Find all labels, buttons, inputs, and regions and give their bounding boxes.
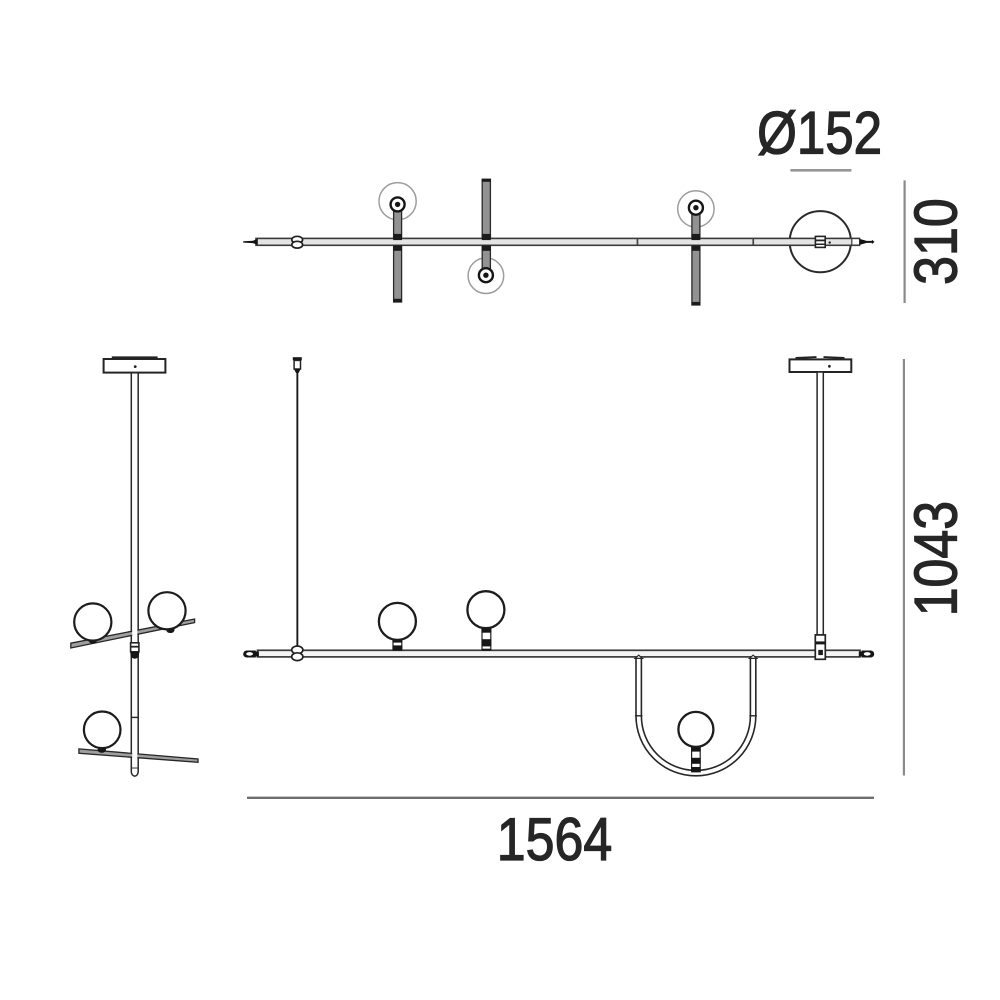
upper-left sphere [74, 603, 111, 640]
sphere 1 [379, 603, 416, 640]
suspension rod (front view) [817, 372, 823, 635]
element 1: rod [394, 206, 402, 303]
U-tube outer wall [636, 657, 756, 776]
dim line 1564 [247, 797, 874, 799]
sphere 1 stem [393, 639, 402, 650]
lower sphere [84, 712, 121, 749]
svg-text:1564: 1564 [497, 805, 612, 872]
element 1: sphere circle (light) [379, 183, 416, 220]
upper-right sphere stub [166, 627, 174, 633]
rod rounded tip [131, 769, 138, 777]
element 3: rod [692, 211, 700, 306]
U-tube joint ticks [635, 715, 643, 717]
right eyelet [859, 651, 874, 658]
rod over arms [132, 628, 137, 643]
upper-right sphere [148, 592, 185, 629]
lower arm (side view) [79, 749, 198, 762]
element 1: pivot ring [391, 197, 405, 211]
dim line 310 [903, 180, 905, 303]
bar (front view) [258, 650, 861, 657]
element 3: rod clamp bands [692, 234, 701, 240]
element 2: rod clamp bands [482, 234, 491, 240]
dim line 1043 [903, 359, 905, 776]
bar (top view) [256, 238, 860, 245]
cable collar on bar [292, 646, 303, 654]
U sphere stem [692, 746, 701, 771]
canopy disc (top view) [790, 211, 851, 272]
mid connector (side view) [131, 643, 139, 652]
upper-left sphere stub [89, 637, 97, 643]
U-tube inner wall [641, 657, 750, 771]
svg-text:1043: 1043 [902, 501, 969, 616]
joint tick 1 on bar [637, 239, 639, 246]
element 3: pivot ring [689, 201, 703, 215]
canopy (front view) [790, 359, 852, 372]
element 2: rod [482, 179, 490, 269]
dim leader under Ø152 [790, 169, 851, 172]
element 2: sphere circle (light) [468, 258, 504, 294]
element 3: sphere circle (light) [678, 191, 714, 227]
upper arm (side view) [71, 619, 195, 648]
cable collar (top view) [292, 236, 303, 243]
left eyelet [243, 651, 259, 658]
rod connector (front view) [815, 635, 825, 659]
left suspension cable [296, 373, 298, 650]
bar end gap segment [852, 239, 859, 244]
stem rod (side view) [131, 373, 138, 769]
lower sphere stub [98, 746, 106, 752]
left cable top fitting [293, 357, 302, 360]
sphere 2 stem [482, 628, 491, 650]
joint tick 2 on bar [752, 239, 754, 246]
sphere 2 [467, 591, 504, 628]
element 1: rod clamp bands [393, 234, 402, 240]
left pin tip [243, 239, 258, 245]
rod joint tick [131, 716, 138, 718]
right pin tip [859, 239, 874, 245]
U-tube top peaks [635, 655, 642, 658]
svg-text:Ø152: Ø152 [757, 100, 882, 167]
canopy (side view) [104, 359, 166, 373]
canopy centre fitting (top view) [815, 236, 825, 247]
element 2: pivot ring [479, 268, 493, 282]
U sphere [678, 712, 713, 747]
svg-text:310: 310 [902, 198, 969, 285]
